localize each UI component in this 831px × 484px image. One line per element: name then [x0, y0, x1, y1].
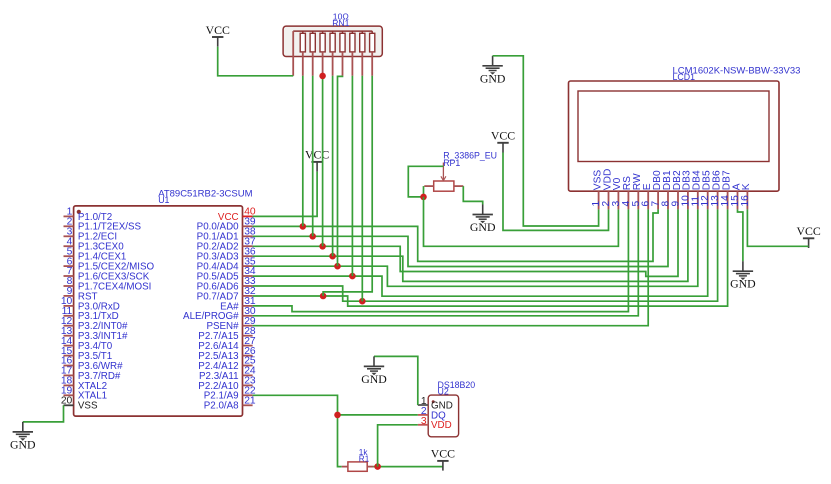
- LCD module LCD1 LCM1602K-NSW-BBW-33V33: [569, 65, 801, 191]
- svg-text:21: 21: [244, 396, 256, 407]
- RN1 element R5: [340, 31, 345, 76]
- U1 pin 8 (P1.7CEX4/MOSI): [64, 276, 152, 292]
- wire R1 to VCC: [373, 466, 443, 468]
- svg-text:VCC: VCC: [491, 129, 515, 143]
- U1 pin 34 (P0.5/AD5): [197, 266, 256, 282]
- U1 pin 21 (P2.0/A8): [204, 396, 256, 412]
- U1 pin 19 (XTAL1): [61, 386, 107, 402]
- svg-text:VCC: VCC: [431, 447, 455, 461]
- wire P0.2 to LCD DB2: [253, 209, 678, 276]
- U1 pin 3 (P1.2/ECI): [64, 227, 118, 243]
- power flag VCC2: [305, 148, 329, 172]
- U1 pin 13 (P3.3/INT1#): [61, 326, 128, 342]
- LCD1 pin 4 (RS): [621, 176, 633, 210]
- LCD1 pin 12 (DB5): [700, 170, 712, 209]
- U1 pin 30 (ALE/PROG#): [183, 306, 256, 322]
- LCD1 pin 14 (DB7): [720, 170, 732, 209]
- wire ALE/PROG# to LCD RW: [253, 209, 639, 315]
- svg-text:R1: R1: [359, 455, 370, 464]
- svg-text:3: 3: [421, 416, 427, 427]
- wire P0.4 to LCD DB4: [253, 209, 698, 286]
- power flag VCC5: [431, 447, 455, 471]
- wire junction up to U2 VDD: [378, 425, 418, 467]
- svg-text:U1: U1: [158, 195, 169, 205]
- node junction P0.2: [319, 243, 326, 250]
- node junction DQ: [334, 412, 341, 419]
- wire RP1 junction to LCD pin3 V0: [424, 197, 619, 246]
- wire RN1 R1 to P0.0: [302, 76, 304, 227]
- ground GND5: [10, 422, 36, 452]
- LCD1 pin 15 (A): [730, 183, 742, 209]
- U1 pin 23 (P2.2/A10): [198, 376, 256, 392]
- svg-text:GND: GND: [10, 437, 36, 451]
- wire RN1 R4 to P0.3: [332, 76, 334, 256]
- wire U2 GND pin to GND flag: [374, 356, 418, 405]
- IC U1 AT89C51RB2-3CSUM microcontroller body: [74, 188, 253, 416]
- potentiometer RP1 R_3386P_EU: [424, 150, 497, 191]
- wire RP1 right terminal to GND: [463, 186, 482, 204]
- U1 pin 35 (P0.4/AD4): [197, 256, 256, 272]
- node junction P0.3: [329, 253, 336, 260]
- U1 pin 15 (P3.5/T1): [61, 346, 112, 362]
- U1 pin 6 (P1.5/CEX2/MISO): [64, 256, 155, 272]
- LCD1 pin 6 (E): [641, 183, 653, 209]
- U1 pin 9 (RST): [64, 286, 98, 302]
- U1 pin 36 (P0.3/AD3): [197, 246, 256, 262]
- LCD1 pin 9 (DB2): [671, 170, 683, 209]
- wire VCC to LCD pin2 VDD: [503, 153, 609, 231]
- wire RN1 R6 to P0.5: [351, 76, 353, 276]
- LCD1 pin 3 (V0): [611, 177, 623, 209]
- LCD1 pin 8 (DB1): [661, 170, 673, 209]
- U1 pin 17 (P3.7/RD#): [61, 366, 121, 382]
- ground GND4: [361, 356, 387, 386]
- U1 pin 28 (P2.7/A15): [198, 326, 256, 342]
- node junction P0.6: [359, 298, 366, 305]
- svg-text:K: K: [741, 183, 752, 190]
- U1 pin 38 (P0.1/AD1): [197, 227, 256, 243]
- wire P0.3 to LCD DB3: [253, 209, 688, 281]
- U1 pin 18 (XTAL2): [61, 376, 107, 392]
- node junction R1/VCC/VDD: [374, 463, 381, 470]
- wire RP1 left terminal down to junction: [423, 186, 425, 197]
- node junction P0.5: [349, 273, 356, 280]
- LCD1 pin 10 (DB3): [680, 170, 692, 209]
- node junction RN1 R3: [319, 73, 326, 80]
- svg-text:LCD1: LCD1: [673, 72, 696, 82]
- wire P0.7 to LCD DB7: [253, 209, 728, 306]
- power flag VCC1: [206, 23, 230, 47]
- resistor R1 1k: [342, 448, 374, 471]
- wire RN1 R5 to P0.4: [338, 76, 343, 266]
- svg-text:VCC: VCC: [305, 148, 329, 162]
- LCD1 pin 7 (DB0): [651, 170, 663, 209]
- svg-text:GND: GND: [480, 71, 506, 85]
- U1 pin 11 (P3.1/TxD): [62, 306, 119, 322]
- svg-text:P2.0/A8: P2.0/A8: [204, 401, 239, 412]
- U1 pin 32 (P0.7/AD7): [197, 286, 256, 302]
- ground GND2: [470, 205, 496, 235]
- resistor network RN1 10ohm body: [283, 11, 382, 75]
- U1 pin 37 (P0.2/AD2): [197, 236, 256, 252]
- svg-text:GND: GND: [470, 220, 496, 234]
- wire P0.5 to LCD DB5: [253, 209, 708, 296]
- U1 pin 2 (P1.1/T2EX/SS): [64, 217, 142, 233]
- U1 pin 5 (P1.4/CEX1): [64, 246, 127, 262]
- U1 pin 25 (P2.4/A12): [198, 356, 256, 372]
- RN1 element R6: [350, 31, 355, 76]
- node junction P0.1: [309, 233, 316, 240]
- wire LCD pin15 A to GND: [738, 209, 743, 261]
- U1 pin 14 (P3.4/T0): [61, 336, 113, 352]
- wire GND to LCD pin1 VSS: [493, 56, 599, 226]
- svg-text:GND: GND: [730, 277, 756, 291]
- U1 pin 7 (P1.6/CEX3/SCK): [64, 266, 150, 282]
- LCD1 pin 11 (DB4): [690, 170, 702, 209]
- wire P0.6 to LCD DB6: [253, 209, 718, 301]
- wire U2 DQ to P2.1 net: [338, 414, 418, 416]
- svg-text:VCC: VCC: [796, 224, 820, 238]
- ground GND3: [730, 261, 756, 291]
- wire U1 VSS to GND: [23, 405, 64, 422]
- U1 pin 10 (P3.0/RxD): [61, 296, 120, 312]
- wire PSEN# to LCD E: [253, 209, 649, 325]
- svg-text:RP1: RP1: [443, 158, 460, 168]
- svg-text:VCC: VCC: [206, 23, 230, 37]
- node junction P0.4: [334, 263, 341, 270]
- U1 pin 1 (P1.0/T2): [64, 207, 113, 223]
- U1 pin 33 (P0.6/AD6): [197, 276, 256, 292]
- LCD1 pin 1 (VSS): [591, 170, 603, 210]
- wire VCC to RN1 common pin: [218, 47, 294, 76]
- RN1 element R8: [370, 31, 375, 76]
- ground GND1: [480, 56, 506, 86]
- power flag VCC4: [796, 224, 820, 248]
- wire P0.0 to LCD DB0: [253, 209, 658, 261]
- U1 pin 22 (P2.1/A9): [204, 386, 256, 402]
- wire RN1 R7 to P0.6: [361, 76, 363, 302]
- U1 pin 16 (P3.6/WR#): [61, 356, 123, 372]
- U1 pin 24 (P2.3/A11): [199, 366, 256, 382]
- U2 pin 3 (VDD): [418, 416, 452, 431]
- RN1 element R3: [320, 31, 325, 76]
- LCD1 pin 2 (VDD): [601, 169, 613, 210]
- U1 pin 20 (VSS): [61, 396, 98, 412]
- wire P0.1 to LCD DB1: [253, 209, 668, 266]
- U1 pin 12 (P3.2/INT0#): [61, 316, 128, 332]
- wire RN1 R3 to P0.2: [322, 76, 324, 246]
- LCD1 pin 5 (RW): [631, 173, 643, 209]
- svg-text:VSS: VSS: [78, 401, 98, 412]
- svg-text:AT89C51RB2-3CSUM: AT89C51RB2-3CSUM: [158, 188, 252, 199]
- node junction P0.0: [300, 223, 307, 230]
- wire RN1 R8 to P0.7: [323, 76, 372, 296]
- wire RN1 R2 to P0.1: [312, 76, 314, 237]
- svg-text:VDD: VDD: [431, 420, 452, 431]
- U1 pin 40 (VCC): [218, 207, 256, 223]
- IC U2 DS18B20 temperature sensor body: [428, 380, 475, 437]
- wire EA# to LCD RS: [253, 209, 629, 311]
- wire LCD pin16 K to VCC: [747, 209, 808, 246]
- svg-text:RN1: RN1: [332, 18, 349, 28]
- U1 pin 27 (P2.6/A14): [198, 336, 256, 352]
- RN1 element R1: [300, 31, 305, 76]
- LCD1 pin 16 (K): [740, 183, 752, 209]
- RN1 element R2: [310, 31, 315, 76]
- U1 pin 4 (P1.3CEX0): [64, 236, 125, 252]
- svg-text:GND: GND: [361, 372, 387, 386]
- svg-text:16: 16: [740, 195, 751, 207]
- svg-text:20: 20: [61, 396, 73, 407]
- svg-text:U2: U2: [438, 386, 449, 396]
- LCD1 pin 13 (DB6): [710, 170, 722, 209]
- U1 pin 29 (PSEN#): [206, 316, 255, 332]
- RN1 element R4: [330, 31, 335, 76]
- node junction P0.7: [320, 293, 327, 300]
- U1 pin 39 (P0.0/AD0): [197, 217, 256, 233]
- U1 pin 26 (P2.5/A13): [198, 346, 256, 362]
- U2 pin 1 (GND): [418, 396, 453, 411]
- U2 pin 2 (DQ): [418, 406, 446, 421]
- wire RP1 wiper loop to left terminal: [408, 166, 443, 197]
- wire U1 P2.1/A9 down to R1: [253, 395, 342, 466]
- node RP1 junction: [420, 194, 427, 201]
- U1 pin 31 (EA#): [220, 296, 256, 312]
- wire VCC to U1 pin40: [253, 172, 318, 217]
- RN1 element R7: [360, 31, 365, 76]
- power flag VCC3: [491, 129, 515, 153]
